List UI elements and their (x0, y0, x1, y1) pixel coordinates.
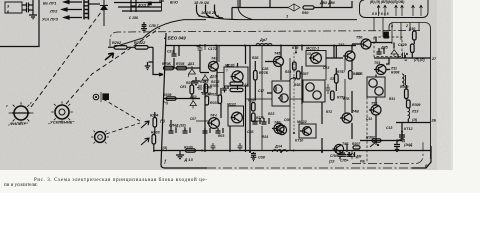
verticals cluster2 (205, 46, 246, 153)
vertical wire c3 (249, 46, 251, 153)
input rail (163, 67, 200, 69)
capacitor C102 (22, 8, 33, 13)
resistor R309b (407, 100, 411, 108)
wires (232, 0, 334, 20)
harness stub 24 (218, 15, 224, 19)
wire (32, 0, 34, 15)
dashed vert (366, 97, 368, 163)
ground on wire (145, 62, 153, 70)
connector pin stack (84, 0, 89, 20)
caps y127 c2 (203, 128, 211, 133)
verticals c4 (322, 46, 352, 153)
junction dots (204, 45, 206, 47)
cap at 340 (338, 151, 343, 159)
wire arrow LU3 (64, 16, 82, 19)
resistor R1 (204, 84, 208, 93)
indicator icon circle (93, 94, 99, 100)
vertical resistor c2a (218, 95, 222, 104)
board left edge (161, 33, 166, 168)
knob Filter (14, 106, 28, 120)
wire to plug (89, 3, 101, 5)
verticals c5 (376, 43, 406, 141)
transistor T47 left (277, 125, 286, 134)
resistor R257 (349, 71, 353, 80)
harness bracket 20 (215, 5, 224, 19)
cap in D45 (377, 48, 385, 54)
wire right (270, 0, 352, 8)
harness outer shell (238, 0, 252, 19)
trimmer bowtie (288, 4, 300, 11)
resistor capsule h2 (230, 88, 243, 91)
harness bracket 19 (206, 5, 215, 18)
ground inside (192, 77, 200, 85)
resistor R30 top (413, 31, 417, 40)
extra vertical wires center (219, 46, 345, 151)
dashed link D2 gain-to-R202 (66, 28, 160, 104)
top rail (166, 45, 356, 47)
ground Д11 (176, 151, 184, 159)
board right connector box (389, 23, 431, 160)
electrolytic blob (384, 32, 389, 39)
harness stub 25 (208, 15, 210, 17)
wire row2 (163, 98, 200, 100)
diode in D45 (391, 48, 398, 56)
resistor R705 (177, 66, 187, 70)
dashed box D45 (374, 37, 402, 57)
wire to board (153, 47, 163, 76)
harness tail left (114, 20, 206, 47)
pin arrows up (377, 5, 422, 16)
resistor R270 (252, 103, 256, 112)
resistor capsule h1 (230, 82, 243, 85)
cap C(4D (399, 132, 405, 141)
chain vert KT10 (293, 53, 295, 134)
caps c3 (253, 118, 261, 124)
wires cluster4 (302, 46, 343, 105)
wire W2 (118, 6, 162, 8)
resistor R207b (353, 146, 360, 149)
scan noise overlay (0, 0, 1, 1)
harness stub 16 (198, 15, 200, 17)
input jack box (5, 2, 22, 13)
wiper arrow bold at R202 (105, 53, 114, 60)
extra row wires (196, 73, 303, 122)
wire arrow LU1 (64, 0, 82, 3)
wire row (L) (374, 40, 431, 58)
bottom right corner (412, 146, 431, 168)
wiper R302 (370, 142, 377, 148)
vertical resistors right of T45 (293, 62, 297, 70)
harness bracket 18 (197, 5, 206, 18)
pin stubs (374, 18, 419, 45)
plug symbol (100, 0, 108, 26)
wire top entering board (159, 0, 164, 11)
capacitor C101 (22, 3, 33, 8)
dashed link D4 small knob (106, 123, 140, 134)
resistor R309a (405, 89, 409, 99)
dashed link D5 icon-to-wiper (103, 99, 140, 121)
cap vert c2 (222, 86, 226, 93)
cap 2 (183, 128, 191, 134)
wiper arrow small (289, 77, 296, 81)
extra caps on bus (211, 143, 243, 151)
wires T50 (352, 37, 392, 44)
cap ЛЗ (326, 84, 330, 94)
indicator icon square (103, 94, 108, 99)
wire arrow LU2 (62, 8, 82, 11)
board bottom edge (165, 167, 207, 169)
module MC22 lower (303, 80, 325, 102)
module 3 box (367, 77, 385, 97)
wire row (Э) (396, 119, 431, 123)
dashed link D1 filter-to-board (31, 4, 107, 107)
resistor R50 (303, 6, 314, 9)
connector shell (360, 0, 429, 18)
jack X1 (131, 0, 136, 12)
screen box outline (0, 0, 39, 47)
wire row R302 (360, 140, 402, 142)
resistor R757 (335, 74, 339, 83)
board top chain line (110, 31, 420, 48)
cap С£6 (141, 22, 147, 32)
cap blob on W1 (148, 2, 152, 6)
svg-text:Рис. 3. Схема электрическая пр: Рис. 3. Схема электрическая принципиальн… (34, 178, 207, 183)
resistor R033 (205, 96, 209, 105)
resistor R70B (164, 66, 174, 70)
wire W3 (122, 10, 162, 12)
extra labels density (180, 56, 395, 139)
harness trunk (205, 17, 357, 20)
resistor R253 (331, 91, 335, 100)
wire W1 (114, 2, 162, 4)
small knob (95, 132, 106, 143)
bottom rail (154, 150, 431, 152)
knob Gain (55, 105, 69, 119)
ground (29, 15, 37, 19)
module MC2 mid (272, 81, 290, 106)
inner chain bottom (352, 141, 423, 164)
svg-text:пи и усилителя:: пи и усилителя: (4, 183, 38, 188)
bottom chain segment (207, 167, 412, 169)
